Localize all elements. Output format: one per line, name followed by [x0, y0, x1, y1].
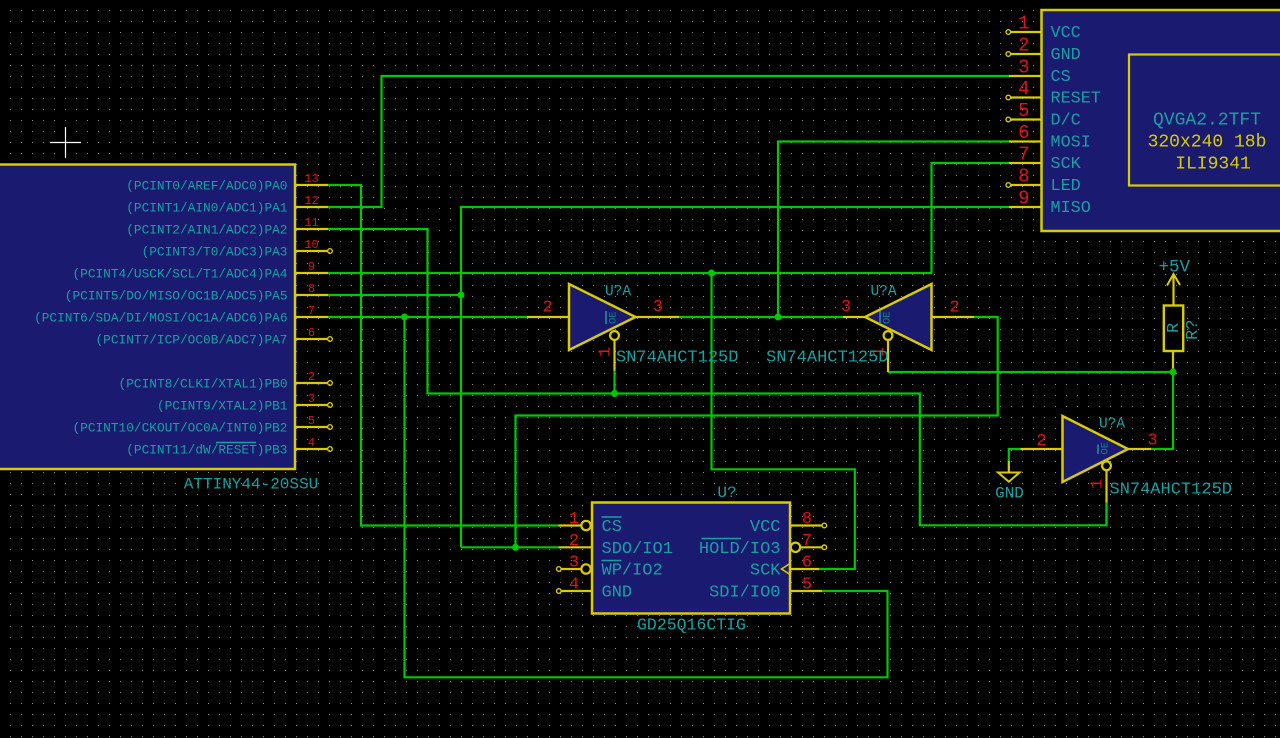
svg-text:D/C: D/C — [1051, 112, 1081, 131]
svg-text:MOSI: MOSI — [1051, 134, 1091, 153]
pin 5 PB2 — [72, 414, 332, 436]
junction U1 enable — [611, 390, 618, 397]
svg-text:11: 11 — [304, 216, 318, 230]
wire resistor bottom lead — [1172, 369, 1174, 373]
wire PA4 branch to flash SCK — [712, 273, 855, 569]
svg-text:ATTINY44-20SSU: ATTINY44-20SSU — [184, 476, 318, 494]
svg-text:(PCINT6/SDA/DI/MOSI/OC1A/ADC6): (PCINT6/SDA/DI/MOSI/OC1A/ADC6)PA6 — [34, 311, 287, 326]
svg-text:9: 9 — [1018, 188, 1029, 210]
svg-text:VCC: VCC — [1051, 24, 1081, 43]
ground symbol GND — [995, 461, 1024, 503]
svg-text:4: 4 — [569, 576, 579, 595]
pin 7 PA6 — [34, 304, 328, 326]
svg-text:R: R — [1165, 323, 1184, 333]
svg-text:3: 3 — [1018, 57, 1029, 79]
wire PA0 to flash CS — [328, 185, 558, 526]
svg-text:SN74AHCT125D: SN74AHCT125D — [616, 349, 738, 368]
svg-text:2: 2 — [1018, 35, 1029, 57]
svg-text:3: 3 — [308, 392, 315, 406]
pin 2 PB0 — [119, 370, 333, 392]
wire flash SDO to U2 buffer input — [516, 317, 998, 547]
TFT pin 1 VCC — [1006, 13, 1081, 44]
svg-text:SCK: SCK — [750, 562, 781, 581]
svg-text:5: 5 — [802, 576, 812, 595]
enable bubble and pin 1 — [610, 331, 619, 340]
svg-text:2: 2 — [308, 370, 315, 384]
flash pin 1 CS (inverted) — [558, 510, 622, 537]
svg-text:VCC: VCC — [750, 518, 781, 537]
svg-text:2: 2 — [542, 299, 552, 318]
flash pin 5 SDI/IO0 — [709, 576, 822, 603]
svg-text:(PCINT0/AREF/ADC0)PA0: (PCINT0/AREF/ADC0)PA0 — [126, 179, 287, 194]
svg-text:6: 6 — [1018, 122, 1029, 144]
svg-text:320x240 18b: 320x240 18b — [1148, 133, 1267, 153]
svg-text:6: 6 — [802, 554, 812, 573]
svg-text:OE: OE — [882, 311, 894, 324]
svg-text:4: 4 — [1018, 78, 1029, 100]
buffer U?A SN74AHCT125D (middle, mirrored) — [766, 284, 974, 372]
junction PA4/flash SCK — [708, 270, 715, 277]
TFT pin 6 MOSI — [1009, 122, 1091, 153]
flash pin 8 VCC — [750, 510, 827, 537]
TFT pin 9 MISO — [1009, 188, 1091, 219]
wire PA4 to TFT SCK — [328, 163, 1009, 273]
svg-text:(PCINT10/CKOUT/OC0A/INT0)PB2: (PCINT10/CKOUT/OC0A/INT0)PB2 — [72, 421, 287, 436]
svg-text:2: 2 — [569, 532, 579, 551]
svg-text:SN74AHCT125D: SN74AHCT125D — [1110, 481, 1232, 500]
svg-text:1: 1 — [569, 510, 579, 529]
buffer U?A SN74AHCT125D (right) — [1021, 416, 1232, 503]
svg-text:SDO/IO1: SDO/IO1 — [602, 540, 673, 559]
svg-text:12: 12 — [304, 194, 318, 208]
wire PA6 branch to flash SDI — [405, 317, 888, 677]
pin 11 PA2 — [126, 216, 328, 238]
flash pin 3 WP/IO2 (inverted) — [557, 554, 663, 581]
pin 8 PA5 — [65, 282, 328, 304]
wire MISO to flash SDO — [461, 546, 559, 548]
svg-text:13: 13 — [304, 172, 318, 186]
TFT pin 5 D/C — [1006, 100, 1081, 131]
svg-text:6: 6 — [308, 326, 315, 340]
enable bubble and pin 1 — [1102, 461, 1111, 470]
svg-text:7: 7 — [308, 304, 315, 318]
svg-text:8: 8 — [1018, 166, 1029, 188]
wire MISO vertical and TFT MISO — [461, 207, 1009, 547]
svg-text:ILI9341: ILI9341 — [1175, 155, 1251, 175]
svg-text:3: 3 — [569, 554, 579, 573]
svg-text:2: 2 — [1036, 432, 1046, 451]
svg-text:CS: CS — [602, 518, 622, 537]
wire U2 enable to pull-up — [888, 371, 1173, 373]
svg-text:OE: OE — [1100, 442, 1112, 455]
pin 3 PB1 — [157, 392, 332, 414]
junction flash SDO — [512, 544, 519, 551]
IC U? ATTINY44-20SSU body — [0, 165, 295, 470]
junction PA6/flash SDI — [401, 314, 408, 321]
pin 9 PA4 — [72, 260, 328, 282]
wire PA5 stub to MISO net — [328, 294, 461, 296]
buffer U?A SN74AHCT125D (left) — [527, 284, 738, 371]
pin 10 PA3 — [142, 238, 333, 260]
svg-text:5: 5 — [308, 414, 315, 428]
TFT pin 7 SCK — [1009, 144, 1082, 175]
TFT display inner frame — [1129, 55, 1280, 186]
wire MOSI branch to TFT MOSI — [778, 142, 1009, 318]
svg-text:OE: OE — [608, 311, 620, 324]
svg-text:5: 5 — [1018, 100, 1029, 122]
enable bubble and pin 1 — [884, 331, 893, 340]
svg-text:SDI/IO0: SDI/IO0 — [709, 584, 780, 603]
wire pull-up node to U3 output — [1151, 372, 1173, 449]
svg-text:HOLD/IO3: HOLD/IO3 — [699, 540, 781, 559]
svg-text:(PCINT1/AIN0/ADC1)PA1: (PCINT1/AIN0/ADC1)PA1 — [126, 201, 288, 216]
svg-text:GND: GND — [602, 584, 633, 603]
svg-text:U?A: U?A — [605, 284, 631, 300]
svg-text:1: 1 — [1089, 479, 1108, 489]
svg-text:U?A: U?A — [1099, 417, 1125, 433]
svg-text:9: 9 — [308, 260, 315, 274]
svg-text:(PCINT9/XTAL2)PB1: (PCINT9/XTAL2)PB1 — [157, 399, 288, 414]
svg-text:U?: U? — [717, 484, 736, 502]
svg-text:7: 7 — [802, 532, 812, 551]
svg-text:SCK: SCK — [1051, 155, 1082, 174]
TFT pin 3 CS — [1009, 57, 1071, 88]
svg-text:(PCINT5/DO/MISO/OC1B/ADC5)PA5: (PCINT5/DO/MISO/OC1B/ADC5)PA5 — [65, 289, 288, 304]
flash pin 4 GND — [557, 576, 633, 603]
svg-text:SN74AHCT125D: SN74AHCT125D — [766, 349, 888, 368]
svg-text:RESET: RESET — [1051, 90, 1101, 109]
wire PA1 to TFT CS — [328, 76, 1009, 207]
svg-text:8: 8 — [802, 510, 812, 529]
wire U1 enable to PA2 net — [613, 371, 615, 394]
flash pin 7 HOLD/IO3 (inverted) — [699, 532, 827, 559]
wire PA6 to U1 buffer input — [328, 316, 527, 318]
wire PA2 to buffer enables — [328, 229, 1107, 525]
junction PA5/MISO — [458, 292, 465, 299]
svg-text:WP/IO2: WP/IO2 — [602, 562, 663, 581]
pin 13 PA0 — [126, 172, 328, 194]
svg-text:(PCINT3/T0/ADC3)PA3: (PCINT3/T0/ADC3)PA3 — [142, 245, 288, 260]
IC U? GD25Q16CTIG body — [592, 503, 790, 614]
TFT pin 8 LED — [1006, 166, 1081, 197]
svg-text:1: 1 — [1018, 13, 1029, 35]
svg-text:U?A: U?A — [870, 284, 896, 300]
svg-text:GND: GND — [995, 485, 1024, 503]
svg-text:(PCINT11/dW/RESET)PB3: (PCINT11/dW/RESET)PB3 — [126, 443, 287, 458]
TFT pin 2 GND — [1006, 35, 1081, 66]
flash pin 6 SCK (clock) — [750, 554, 819, 581]
wire U1 output to U2 output — [679, 316, 843, 318]
pin 6 PA7 — [96, 326, 333, 348]
flash pin 2 SDO/IO1 — [559, 532, 673, 559]
resistor R? — [1164, 306, 1203, 369]
svg-text:1: 1 — [597, 347, 616, 357]
svg-text:3: 3 — [1147, 432, 1157, 451]
wire U3 input to GND — [1009, 449, 1021, 461]
svg-text:CS: CS — [1051, 68, 1071, 87]
TFT pin 4 RESET — [1006, 78, 1101, 109]
svg-text:4: 4 — [308, 436, 315, 450]
svg-text:GND: GND — [1051, 46, 1081, 65]
junction pull-up R — [1170, 369, 1177, 376]
power symbol +5V — [1158, 258, 1190, 307]
svg-text:QVGA2.2TFT: QVGA2.2TFT — [1153, 111, 1261, 131]
svg-text:3: 3 — [841, 298, 851, 317]
svg-text:2: 2 — [949, 299, 959, 318]
pin 4 PB3 with RESET overbar — [126, 436, 332, 458]
svg-text:R?: R? — [1184, 320, 1203, 340]
svg-text:GD25Q16CTIG: GD25Q16CTIG — [637, 616, 746, 635]
svg-text:8: 8 — [308, 282, 315, 296]
junction MOSI/TFT — [775, 314, 782, 321]
svg-text:(PCINT8/CLKI/XTAL1)PB0: (PCINT8/CLKI/XTAL1)PB0 — [119, 377, 288, 392]
svg-text:7: 7 — [1018, 144, 1029, 166]
svg-text:MISO: MISO — [1051, 199, 1091, 218]
cursor crosshair — [50, 127, 81, 158]
svg-text:LED: LED — [1051, 177, 1081, 196]
pin 12 PA1 — [126, 194, 328, 216]
svg-text:3: 3 — [653, 298, 663, 317]
connector J? TFT display outer body — [1042, 10, 1280, 231]
svg-text:(PCINT7/ICP/OC0B/ADC7)PA7: (PCINT7/ICP/OC0B/ADC7)PA7 — [96, 333, 288, 348]
svg-text:(PCINT4/USCK/SCL/T1/ADC4)PA4: (PCINT4/USCK/SCL/T1/ADC4)PA4 — [72, 267, 287, 282]
svg-text:(PCINT2/AIN1/ADC2)PA2: (PCINT2/AIN1/ADC2)PA2 — [126, 223, 287, 238]
svg-text:10: 10 — [304, 238, 318, 252]
wire U3 enable lead — [1105, 503, 1107, 526]
